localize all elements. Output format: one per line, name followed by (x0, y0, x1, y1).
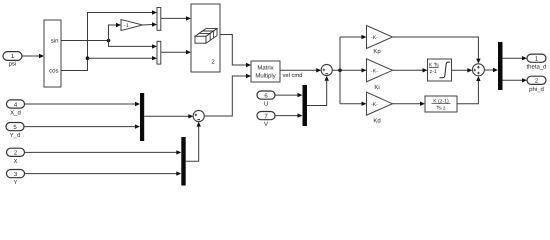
wire gain Kd to derivative (393, 103, 421, 105)
svg-text:-1: -1 (124, 23, 129, 29)
wire vel cmd to sum S1 (280, 69, 317, 71)
inport 7 (V) (257, 112, 275, 120)
wire gain Ki to integrator (393, 69, 424, 71)
wire branch to gain Kd (340, 103, 362, 105)
svg-text:U: U (264, 101, 268, 108)
svg-text:V: V (264, 121, 268, 128)
wire sum S1 to gain Ki (332, 69, 362, 71)
wire X to mux M5 (25, 151, 177, 153)
wire sin output to junction (61, 40, 109, 42)
mux M1 (157, 8, 161, 31)
wire psi to sincos (22, 55, 40, 57)
node cos junction (86, 56, 90, 60)
wire junction up to gain -1 (109, 25, 117, 41)
svg-text:Kp: Kp (373, 48, 381, 55)
svg-text:-K-: -K- (371, 102, 378, 108)
svg-text:-K-: -K- (371, 35, 378, 41)
gain Ki (367, 59, 393, 82)
svg-text:cos: cos (49, 69, 58, 75)
wire mux M1 to concatenate (161, 17, 187, 19)
gain G1 (-1) (121, 20, 143, 31)
svg-text:Multiply: Multiply (255, 73, 275, 80)
gain Kd (367, 92, 393, 115)
svg-text:-K-: -K- (371, 69, 378, 75)
wire junction down to mux2 in1 (109, 41, 153, 47)
wire demux to outport phi_d (503, 79, 523, 81)
svg-text:Y_d: Y_d (10, 132, 21, 139)
wire derivative to sum S3 (457, 81, 478, 104)
wire concatenate to matrix multiply in1 (220, 35, 247, 66)
wire sum S2 to matrix multiply in2 (204, 76, 246, 116)
wire X_d to mux M4 (25, 103, 136, 105)
mux M2 (157, 41, 161, 64)
svg-text:Ts z: Ts z (436, 106, 446, 112)
discrete derivative block (425, 96, 457, 112)
subsystem sincos (44, 20, 61, 87)
wire Y to mux M5 (25, 173, 177, 175)
wire sum S3 to demux (484, 69, 493, 71)
outport 2 (phi_d) (527, 76, 546, 84)
inport 3 (Y) (7, 170, 25, 178)
inport 1 (psi) (3, 52, 22, 61)
svg-text:Matrix: Matrix (257, 65, 273, 72)
wire cos junction to mux2 in2 (88, 57, 153, 59)
svg-text:Ki: Ki (374, 84, 379, 91)
wire mux M4 to sum S2 (144, 115, 189, 117)
mux M3 (303, 85, 308, 126)
sum S2 (193, 110, 204, 121)
svg-text:X_d: X_d (10, 110, 21, 117)
svg-text:Kd: Kd (373, 117, 380, 124)
wire gain -1 to mux1 in2 (143, 24, 153, 27)
node branch after S1 (338, 69, 342, 73)
wire gain Kp to sum S3 (393, 37, 479, 59)
mux M5 (181, 137, 185, 186)
wire branch to gain Kp (340, 36, 362, 38)
inport 2 (X) (7, 148, 25, 156)
discrete-time integrator block (428, 59, 452, 81)
wire V to mux M3 (275, 115, 298, 117)
svg-text:X: X (13, 158, 17, 165)
sum S1 (321, 64, 332, 75)
svg-text:z-1: z-1 (430, 69, 437, 75)
inport 6 (U) (257, 91, 275, 99)
mux M4 (140, 93, 144, 141)
wire mux M3 up to sum S1 (307, 80, 327, 105)
wire Y_d to mux M4 (24, 126, 136, 128)
demux D1 (498, 42, 503, 90)
svg-text:vel cmd: vel cmd (283, 72, 303, 79)
sum S3 (472, 64, 484, 76)
outport 1 (theta_d) (527, 54, 546, 62)
wire mux M2 to concatenate (161, 51, 187, 53)
svg-text:phi_d: phi_d (529, 86, 544, 93)
inport 4 (X_d) (7, 100, 25, 108)
wire branch vertical (339, 37, 341, 104)
matrix concatenate block (191, 4, 220, 72)
svg-text:psi: psi (9, 61, 17, 68)
wire U to mux M3 (275, 94, 298, 96)
gain Kp (367, 26, 393, 49)
wire mux M5 up to sum S2 (186, 126, 199, 161)
wire demux to outport theta_d (503, 57, 523, 59)
svg-text:Y: Y (13, 179, 17, 186)
inport 5 (Y_d) (6, 123, 24, 131)
wire integrator to sum S3 (452, 69, 468, 71)
svg-text:theta_d: theta_d (526, 64, 546, 71)
wire cos output up (61, 13, 153, 71)
svg-text:sin: sin (51, 38, 59, 45)
matrix multiply block (251, 61, 280, 82)
node sin junction (107, 39, 111, 43)
